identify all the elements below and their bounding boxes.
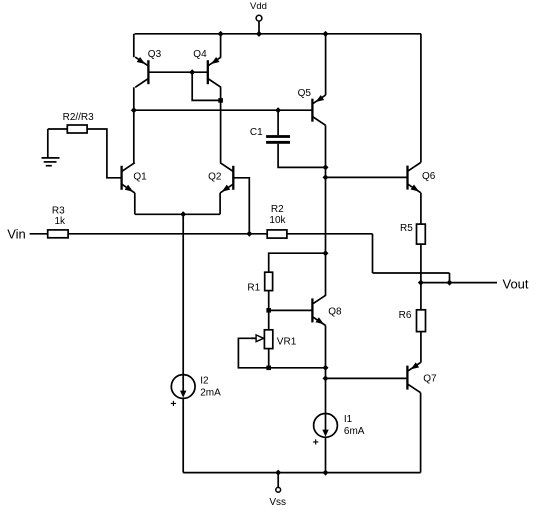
wire Q4 collector / Q2 collector	[220, 87, 222, 163]
wire Vout rail	[421, 282, 497, 284]
wire Q2 base	[233, 178, 249, 234]
wire I1 bottom	[325, 437, 327, 472]
node top rail / Vdd	[256, 31, 262, 37]
wire Vss stem	[277, 473, 279, 488]
wire Vdd stem	[258, 21, 260, 34]
transistor Q7	[407, 362, 420, 392]
ground	[42, 158, 60, 166]
resistor R6	[417, 310, 426, 332]
wire I2 bottom	[182, 398, 184, 472]
wire R2//R3 right lead	[87, 129, 122, 178]
wire Q6 collector	[420, 34, 422, 163]
node wiper tie	[323, 365, 329, 371]
svg-text:VR1: VR1	[277, 336, 297, 347]
wire ground stem	[47, 129, 49, 158]
node C1 bottom	[323, 164, 329, 170]
svg-text:Q7: Q7	[423, 374, 437, 385]
transistor Q6	[408, 163, 421, 193]
wire Q8 base	[269, 309, 313, 311]
wire Q6 base rail	[326, 176, 408, 178]
transistor Q4	[208, 57, 221, 87]
wire Q8 emitter	[325, 326, 327, 414]
wire Q3 collector	[133, 87, 135, 163]
junction VR1 bottom	[266, 366, 271, 371]
svg-text:Q6: Q6	[422, 171, 436, 182]
node Q7 base branch	[323, 375, 329, 381]
node Q6 base branch	[323, 174, 329, 180]
svg-text:R3: R3	[52, 205, 65, 216]
Vss terminal	[276, 487, 281, 492]
wire C1 top lead	[277, 110, 279, 135]
wire Q5 emitter	[325, 34, 327, 95]
wire Vdd top rail	[135, 33, 421, 35]
wire Vss bottom rail	[183, 472, 420, 474]
svg-text:Vss: Vss	[269, 497, 286, 508]
node I1 / bottom rail	[323, 470, 329, 476]
resistor R5	[417, 224, 426, 244]
wire feedback drop	[449, 273, 451, 283]
svg-text:Vin: Vin	[7, 227, 26, 242]
junction R1/VR1/Q8 base	[266, 308, 271, 313]
wire mirror rail	[134, 109, 313, 111]
node R1 branch	[323, 250, 329, 256]
svg-text:6mA: 6mA	[344, 426, 365, 437]
svg-text:Q5: Q5	[298, 88, 312, 99]
capacitor C1	[266, 135, 290, 144]
resistor VR1	[264, 330, 272, 349]
wire VR1 bottom	[268, 349, 270, 368]
wire C1 bottom lead	[278, 144, 325, 168]
wire Q3 emitter	[133, 34, 135, 57]
wire R2 to feedback corner	[287, 233, 373, 235]
wire Q6 emitter	[420, 193, 422, 224]
node top rail / Q5 emitter	[323, 31, 329, 37]
svg-text:2mA: 2mA	[200, 388, 221, 399]
wire Q2 emitter	[219, 193, 221, 214]
resistor R2	[267, 230, 287, 238]
current source I2	[171, 375, 195, 399]
wire feedback down	[372, 234, 374, 273]
node C1 top	[275, 107, 281, 113]
wire Vin lead	[30, 233, 48, 235]
svg-text:Q8: Q8	[328, 306, 342, 317]
svg-text:Vout: Vout	[503, 277, 529, 292]
wire Q4 emitter	[220, 34, 222, 57]
node Q3/Q1 collectors	[131, 107, 137, 113]
wiper arrow VR1	[251, 335, 264, 342]
svg-text:R2//R3: R2//R3	[63, 112, 95, 123]
svg-text:R2: R2	[271, 204, 284, 215]
wire Q7 collector	[420, 393, 422, 473]
wire Q7 base rail	[326, 377, 408, 379]
wire Q3-Q4 base	[148, 71, 207, 73]
wire emitter rail	[135, 213, 220, 215]
svg-text:Q1: Q1	[133, 171, 147, 182]
svg-text:Q2: Q2	[208, 171, 222, 182]
node Vss terminal	[275, 470, 281, 476]
node Q3-Q4 base tie	[189, 69, 195, 75]
wire R1 bottom / VR1 top	[268, 291, 270, 330]
junction Q4 collector tie	[218, 98, 223, 103]
svg-text:Q3: Q3	[148, 49, 162, 60]
current source I1	[314, 414, 338, 438]
wire VR1 wiper	[238, 338, 325, 368]
node Q2 base / Vin	[246, 231, 252, 237]
resistor R1	[265, 272, 273, 290]
node emitter rail / I2	[180, 211, 186, 217]
transistor Q3	[135, 57, 148, 87]
transistor Q8	[312, 295, 325, 325]
wire R5 to Vout	[420, 244, 422, 283]
svg-text:1k: 1k	[55, 216, 67, 227]
transistor Q5	[312, 95, 325, 125]
svg-text:C1: C1	[250, 127, 263, 138]
svg-text:R6: R6	[399, 310, 412, 321]
wire I2 top	[182, 214, 184, 374]
wire feedback across	[373, 272, 450, 274]
node feedback/Vout	[447, 280, 453, 286]
transistor Q1	[122, 163, 135, 193]
wire R6 bottom	[420, 332, 422, 363]
wire Q5 collector chain	[325, 125, 327, 296]
wire R2//R3 left lead	[48, 128, 68, 130]
node top rail / Q4 emitter	[218, 31, 224, 37]
node R5/R6/Vout	[418, 280, 424, 286]
wire Q1 emitter	[134, 193, 136, 214]
svg-text:R5: R5	[400, 223, 413, 234]
resistor R2//R3	[67, 125, 87, 133]
svg-text:I2: I2	[200, 376, 209, 387]
transistor Q2	[220, 163, 233, 193]
svg-text:Vdd: Vdd	[250, 1, 267, 12]
Vdd terminal	[256, 15, 262, 21]
resistor R3	[48, 230, 68, 238]
svg-text:+: +	[313, 437, 319, 449]
svg-text:10k: 10k	[269, 215, 286, 226]
svg-text:+: +	[170, 398, 176, 410]
wire R1 branch	[269, 253, 326, 272]
svg-text:I1: I1	[344, 414, 353, 425]
svg-text:Q4: Q4	[193, 49, 207, 60]
wire Vin mid	[68, 233, 267, 235]
wire R6 top	[420, 283, 422, 310]
wire base-collector tie	[192, 72, 220, 100]
svg-text:R1: R1	[247, 283, 260, 294]
